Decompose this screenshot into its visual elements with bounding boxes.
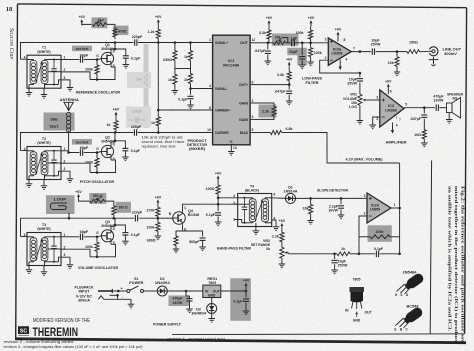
label REFERENCE OSCILLATOR <box>76 90 120 95</box>
supply +6V output <box>243 278 250 291</box>
ground 0.1uF Q2 <box>122 157 128 161</box>
resistor 150ohm <box>407 41 428 54</box>
T3 pin 4 <box>21 233 28 237</box>
T2 pin 1 <box>61 147 66 151</box>
wire T3 pin3 to ground <box>66 257 70 264</box>
capacitor 0.1uF (Q3) <box>122 229 140 241</box>
wire Q2 drain cap branch <box>114 140 126 145</box>
label D3 <box>191 307 206 315</box>
figure caption line 3 <box>448 186 453 331</box>
T3 pin 2 <box>61 245 66 249</box>
IC3 minus input <box>376 117 384 121</box>
transistor Q3 2N5484 <box>101 229 113 242</box>
resistor 680ohm (divider) <box>163 43 177 69</box>
wire Q2 drain riser <box>111 131 116 145</box>
node lineout 10k junction <box>396 50 399 53</box>
capacitor .01uF highlight box <box>287 48 307 66</box>
label Q4 <box>188 209 199 217</box>
SEE TEXT highlight box <box>44 113 75 131</box>
resistor 100k (volume osc) <box>85 237 99 257</box>
wire +6V to trimpot <box>82 23 93 26</box>
pinout 7805 <box>345 277 372 322</box>
capacitor 0.1uF (Q2) <box>122 145 140 157</box>
label BAND-PASS FILTER <box>217 245 251 250</box>
IC3 pin 4 ground <box>391 123 398 134</box>
ground zobel <box>421 143 428 147</box>
trimpot 1k label <box>98 18 102 22</box>
transformer T4 <box>238 194 272 227</box>
capacitor 220pF (volume out) <box>115 211 158 222</box>
wire gate to Q3 <box>97 236 101 237</box>
wire base to Q4 <box>158 217 173 219</box>
capacitor 1uF highlight box <box>0 0 1 1</box>
pinout 2N5484 <box>395 271 425 297</box>
capacitor 1uF lowpass <box>291 37 328 47</box>
IC2b output pin1 <box>391 203 401 210</box>
ground T2 pin3 <box>67 179 74 183</box>
resistor 220k highlight box <box>368 225 392 242</box>
ground D3 <box>208 319 215 323</box>
resistor 10k (slope) <box>303 198 313 220</box>
trimpot VR 1k highlight box <box>92 17 108 28</box>
capacitor 0.1uF (T4) <box>206 204 221 221</box>
node volume gate junction <box>96 236 99 239</box>
resistor 3.3k (out+) <box>277 68 291 85</box>
IC2a feedback loop <box>320 60 362 74</box>
IC2a pin 4 ground <box>339 58 348 70</box>
Q4 terminal letters <box>169 206 188 232</box>
node 630 junction <box>174 41 177 44</box>
transformer T2 <box>27 147 61 180</box>
trimpot 1k <box>93 20 107 27</box>
wire IC2b output net <box>399 163 401 254</box>
label SLOPE DETECTOR <box>317 187 348 192</box>
label POWER SUPPLY <box>153 322 181 327</box>
T3 pin 3 <box>61 253 66 257</box>
op-amp IC2a LM358 <box>328 38 351 65</box>
capacitor 10uF 25VW series (lineout) <box>371 39 407 55</box>
bottom rule <box>15 337 466 344</box>
Q3 terminal letters <box>96 227 115 245</box>
label SPEAKER <box>447 92 463 100</box>
op-amp IC3 LM386 <box>380 90 404 127</box>
T3 pin 1 <box>61 233 66 237</box>
capacitor 560pF <box>189 238 205 247</box>
transistor Q2 2N5484 <box>101 145 113 158</box>
label PRODUCT DETECTOR MIXER <box>187 139 207 151</box>
resistor 3.3k (lowpass) <box>259 26 271 43</box>
note old sound mod <box>142 136 185 149</box>
supply +6V (3.3k lowpass) <box>266 16 273 26</box>
wire Q3 source net <box>66 242 116 256</box>
wire REG GND to D3 <box>211 298 213 304</box>
T4 pin 3 <box>233 194 235 198</box>
ground 0.1uF Q3 <box>122 241 128 245</box>
resistor 2.2k (VR2 feed) <box>272 229 284 245</box>
node pitch source 100k junction <box>96 171 99 174</box>
capacitor .047uF (zobel) <box>410 108 428 126</box>
SC logo <box>18 326 29 335</box>
figure caption line 1 <box>461 186 466 343</box>
label T1 <box>37 46 50 54</box>
IC2a minus input <box>325 56 333 60</box>
figure caption line 2 <box>454 186 459 343</box>
regulator REG1 7805 <box>203 285 221 297</box>
T4 pin 6 <box>272 192 286 198</box>
node ref source 100k junction <box>96 78 99 81</box>
resistor 1k (slope ref) <box>335 247 359 256</box>
loop symbol <box>50 203 67 210</box>
IC1 pin 2 GAIN <box>239 99 255 106</box>
IC1 pin 6 OUT+ <box>239 80 255 87</box>
node bandpass base junction <box>157 217 160 220</box>
label S1 POWER <box>129 277 143 285</box>
node lowpass 100k junction <box>309 42 312 45</box>
wire Q1 source net <box>66 65 115 79</box>
ground 0.1uF T4 <box>215 222 222 226</box>
ground plugpack <box>128 304 135 308</box>
ground .047uF out+ <box>286 101 293 105</box>
wire Q3 drain cap branch <box>114 224 126 229</box>
node ref drain junction <box>114 41 117 44</box>
trimpot 10k lowpass <box>271 35 291 44</box>
wire IC2b minus riser <box>358 216 367 255</box>
resistor 470ohm highlight box <box>113 26 129 35</box>
wire signal- line <box>189 87 212 90</box>
ground divider <box>172 91 179 95</box>
wire 500ohm to 100ohm <box>105 201 114 202</box>
resistor 220k feedback <box>359 230 400 239</box>
wire +6V to 500ohm <box>79 200 90 201</box>
capacitor .047uF (out+) <box>274 85 292 101</box>
wire Q3 drain riser <box>111 217 115 229</box>
resistor 6.8k bias <box>255 127 297 135</box>
label T4 <box>245 184 259 192</box>
op-amp IC1 MC1496 body <box>213 35 251 145</box>
resistor 1k (pitch drain) <box>107 118 119 133</box>
ground T1 center <box>41 88 48 98</box>
node lowpass .01 junction <box>301 42 304 45</box>
transistor Q4 BC548 <box>173 211 186 225</box>
resistor 100k to ground (lowpass) <box>309 43 322 62</box>
wire carrier+ line <box>157 109 213 112</box>
speaker SP1 <box>446 98 461 124</box>
ground 10k lineout <box>394 72 401 76</box>
wire REG OUT to +6V <box>221 290 248 293</box>
capacitor .047uF (out 12) <box>254 43 271 61</box>
node ref gate junction <box>96 58 99 61</box>
IC3 pins 1 7 <box>396 116 402 122</box>
resistor 470ohm <box>113 27 127 40</box>
label ANTENNA <box>60 98 79 102</box>
inductor antenna coil <box>67 112 71 132</box>
supply +6V (100k lowpass) <box>308 16 315 26</box>
label PITCH OSCILLATOR <box>80 179 114 184</box>
ground T4 pin4 <box>273 227 280 231</box>
T1 pin 4 <box>21 56 28 60</box>
node 1.2k junction <box>157 41 160 44</box>
wire Q4 collector <box>183 203 238 211</box>
label LOOP <box>54 198 67 202</box>
wire 100ohm to T4 pin3 <box>218 198 238 204</box>
ground T2 center <box>41 180 48 190</box>
label 4.2V MAX VOLUME <box>346 157 384 161</box>
T4 pin 1 <box>233 217 238 221</box>
node carrier- 1k junction <box>157 131 160 134</box>
resistor 1k (divider left bottom) <box>168 69 177 91</box>
transformer T1 <box>27 55 61 88</box>
pinout BC548 <box>394 305 424 332</box>
wire Q4 emitter net <box>176 225 203 237</box>
Q2 terminal letters <box>96 143 115 161</box>
supply +6V (out+ leg) <box>286 58 293 68</box>
resistor 1k (divider right bottom) <box>184 69 193 89</box>
label AMPLIFIER <box>386 139 407 144</box>
ground 10k slope <box>307 221 314 225</box>
T1 pin 1 <box>61 56 66 60</box>
node volume source 100k junction <box>96 255 99 258</box>
LOOP highlight box <box>46 195 75 214</box>
capacitor 470uF 16VW (supply) <box>173 291 193 309</box>
IC1 pin 4 SIGNAL- <box>208 84 228 91</box>
resistor 100k pullup (lowpass) <box>296 26 313 43</box>
ground T1 left <box>26 88 33 96</box>
wire antenna coil to gate line <box>67 131 70 154</box>
trimpot 500ohm highlight box <box>89 193 106 204</box>
see text tag (ref) <box>72 46 92 52</box>
wire signal+ vertical to carrier+ <box>157 43 159 111</box>
label T3 <box>37 223 50 231</box>
IC1 pin 12 OUT <box>240 38 255 45</box>
IC1 pin 5 BIAS <box>240 128 255 135</box>
label PLUGPACK INPUT <box>75 286 95 303</box>
capacitor 68pF (ref) <box>66 54 97 63</box>
T1 pin 2 <box>61 68 66 72</box>
capacitor 0.1uF (Q1) <box>123 52 141 64</box>
IC2a plus input <box>325 37 333 43</box>
supply output highlight box <box>230 278 251 321</box>
diode D1 1N914A <box>286 193 296 203</box>
ground T3 left <box>26 266 33 274</box>
resistor 1k (carrier bias) <box>151 110 160 133</box>
plug polarity marks <box>116 287 124 300</box>
resistor 270k <box>147 206 161 219</box>
Q1 terminal letters <box>96 50 115 68</box>
supply +6V (bandpass) <box>155 195 162 205</box>
revision note 3 <box>4 345 143 349</box>
label SEE TEXT <box>49 118 59 130</box>
wire carrier- line right <box>158 132 212 134</box>
wire T3 pin4 riser (volume) <box>21 218 114 236</box>
ground 100k bandpass <box>155 236 162 240</box>
ground T2 left <box>26 180 33 188</box>
wire Q1 drain riser <box>111 43 115 52</box>
node T4 pin3 junction <box>217 197 220 200</box>
capacitor 470uF 16VW (speaker) <box>433 95 446 111</box>
wire trimpot to 470ohm <box>107 24 116 26</box>
capacitor 0.1uF (signal-) <box>178 89 193 105</box>
node pitch gate junction <box>96 151 99 154</box>
ground T4 bottom <box>253 227 260 235</box>
capacitor 0.1uF feedback <box>359 247 401 257</box>
capacitor 220uF (carrier-) <box>115 125 158 136</box>
ground T3 pin3 <box>67 265 74 269</box>
wire T1 pin3 to ground <box>66 80 70 87</box>
potentiometer VR2 set range <box>251 239 289 261</box>
diode D2 1N4004 <box>146 286 203 296</box>
wire T2 pin3 to ground <box>66 171 70 178</box>
resistor 100k (bandpass) <box>147 218 161 235</box>
transistor Q1 2N5484 <box>101 52 113 65</box>
resistor 680ohm (bandpass) <box>147 233 178 249</box>
connector LINE OUT <box>428 47 438 66</box>
title MODIFIED VERSION OF THE <box>33 318 90 324</box>
ground T1 pin3 <box>67 88 74 92</box>
wire IC1 out+ leg <box>255 83 291 86</box>
wire Q2 source net <box>66 158 116 172</box>
wire gate to Q1 <box>97 59 101 60</box>
label Q3 <box>101 220 114 228</box>
resistor 10k (lineout) <box>388 52 399 72</box>
ground VR1 <box>357 108 364 125</box>
T2 pin 4 <box>21 147 28 151</box>
IC1 pin 1 SIGNAL+ <box>208 38 228 45</box>
label LOW-PASS FILTER <box>302 76 322 84</box>
IC2b minus input <box>364 212 372 216</box>
trimpot 10k lowpass highlight box <box>272 34 299 46</box>
IC2a output pin 7 <box>351 46 371 52</box>
resistor 100ohm (T4 feed) <box>206 182 221 198</box>
transformer T3 <box>27 233 61 266</box>
IC3 plus input <box>376 95 384 101</box>
T2 pin 3 <box>61 167 66 171</box>
resistor 10ohm (zobel) <box>414 126 426 143</box>
ground 10uF slope <box>331 270 338 274</box>
label LINE OUT <box>443 48 462 56</box>
IC1 pin 10 CARRIER- <box>207 128 230 135</box>
capacitor 10uF 25VW (volume) <box>347 73 363 92</box>
supply +6V (100ohm T4) <box>215 171 222 181</box>
label D1 <box>284 185 298 193</box>
antenna symbol <box>64 102 73 111</box>
ground VR2 <box>279 261 286 268</box>
ground 2.2uF <box>338 215 345 219</box>
capacitor 2.2uF 16VW <box>328 198 344 214</box>
T4 pin 2 <box>233 201 238 205</box>
see text tag (pitch) <box>72 139 92 145</box>
ground 680ohm <box>173 249 180 253</box>
supply +6V (IC3 pin6) <box>385 80 392 95</box>
resistor 2.2k gain highlight box <box>259 105 277 118</box>
wire IC1 out to lowpass <box>255 42 271 45</box>
capacitor 0.1uF (supply) <box>233 291 249 311</box>
IC2b plus input <box>364 194 372 200</box>
wire divider mid rail <box>175 68 191 70</box>
wire gate to Q2 <box>97 152 101 153</box>
IC3 pin 2 ground <box>369 117 379 129</box>
T1 pin 3 <box>61 76 66 80</box>
supply +6V (1.2k) <box>155 15 162 25</box>
revision note 2 <box>4 340 74 344</box>
ground IC1 pin14 <box>228 152 235 156</box>
diode D3 1N4004 <box>207 304 217 319</box>
resistor 100k (pitch osc) <box>85 153 99 173</box>
resistor 1.2k <box>148 25 161 42</box>
resistor 100k (ref osc) <box>85 60 99 80</box>
wire VR1 wiper to IC3 <box>368 99 380 101</box>
IC3 output pin5 <box>404 103 435 109</box>
potentiometer VR1 volume <box>343 92 368 109</box>
wire loop to line <box>68 212 71 219</box>
wire T2 pin4 riser (pitch) <box>21 133 116 151</box>
ground .01uF <box>299 65 306 69</box>
supply +6V (volume trimmer) <box>75 190 82 200</box>
label REG1 7805 <box>207 277 217 285</box>
label Q2 <box>101 136 114 144</box>
IC1 pin 3 GAIN <box>239 115 255 122</box>
resistor 1k (divider right top) <box>184 43 193 69</box>
T2 pin 2 <box>61 159 66 163</box>
wire bias to 4.2V line <box>297 133 400 164</box>
ground 0.1uF signal- <box>187 105 194 109</box>
wire VR2 wiper line <box>289 253 336 256</box>
resistor 2.2k gain <box>255 103 276 119</box>
wire plug return to ground <box>99 296 132 304</box>
resistor 100ohm (volume) <box>112 203 128 219</box>
capacitor 68pF (pitch) <box>66 146 97 156</box>
supply +6V (pitch 1k) <box>113 108 120 118</box>
capacitor 470uF 16VW highlight box <box>169 296 191 307</box>
label T2 <box>37 137 50 145</box>
ground 560pF <box>199 247 206 251</box>
op-amp IC2b LM358 <box>367 193 391 223</box>
label Q1 <box>101 43 114 51</box>
ground 100k lowpass <box>307 62 314 66</box>
ground .047uF out12 <box>265 61 272 65</box>
ground T3 center <box>41 266 48 276</box>
supply +6V (IC2a pin8) <box>335 28 346 43</box>
IC1 pin 8 CARRIER+ <box>208 106 230 113</box>
ghost old mod area <box>126 44 151 128</box>
node 470uF junction <box>185 290 188 293</box>
resistor 100ohm highlight box <box>116 202 132 213</box>
IC1 pin 14 V- <box>230 140 237 151</box>
wire 220pF to signal+ rail <box>138 42 213 44</box>
label D2 <box>155 277 170 285</box>
capacitor 10uF 25VW (slope ref) <box>332 254 348 270</box>
node 1k junction top <box>189 41 192 44</box>
label VOLUME OSCILLATOR <box>78 265 118 270</box>
revision note 4 <box>167 337 226 341</box>
ground 470uF <box>186 309 193 313</box>
T4 pin 4 <box>272 217 276 227</box>
title THEREMIN <box>33 327 79 339</box>
capacitor .01uF lowpass <box>288 43 305 65</box>
magazine name SILICON CHIP <box>8 28 14 59</box>
wire T1 pin4 riser and drain line <box>21 43 134 60</box>
wire D1 to IC2b <box>296 197 368 200</box>
switch S1 power <box>127 286 146 293</box>
ground 0.1uF Q1 <box>123 65 130 69</box>
supply +6V (VR2) <box>279 219 286 229</box>
wire Q1 drain cap branch <box>114 48 126 53</box>
trimpot 500ohm <box>90 194 105 203</box>
capacitor 220pF (ref) <box>132 35 143 46</box>
supply +6V (ref osc) <box>79 15 86 25</box>
connector plugpack <box>98 289 127 299</box>
capacitor 68pF (volume) <box>66 230 97 240</box>
page number 18 <box>6 6 13 13</box>
